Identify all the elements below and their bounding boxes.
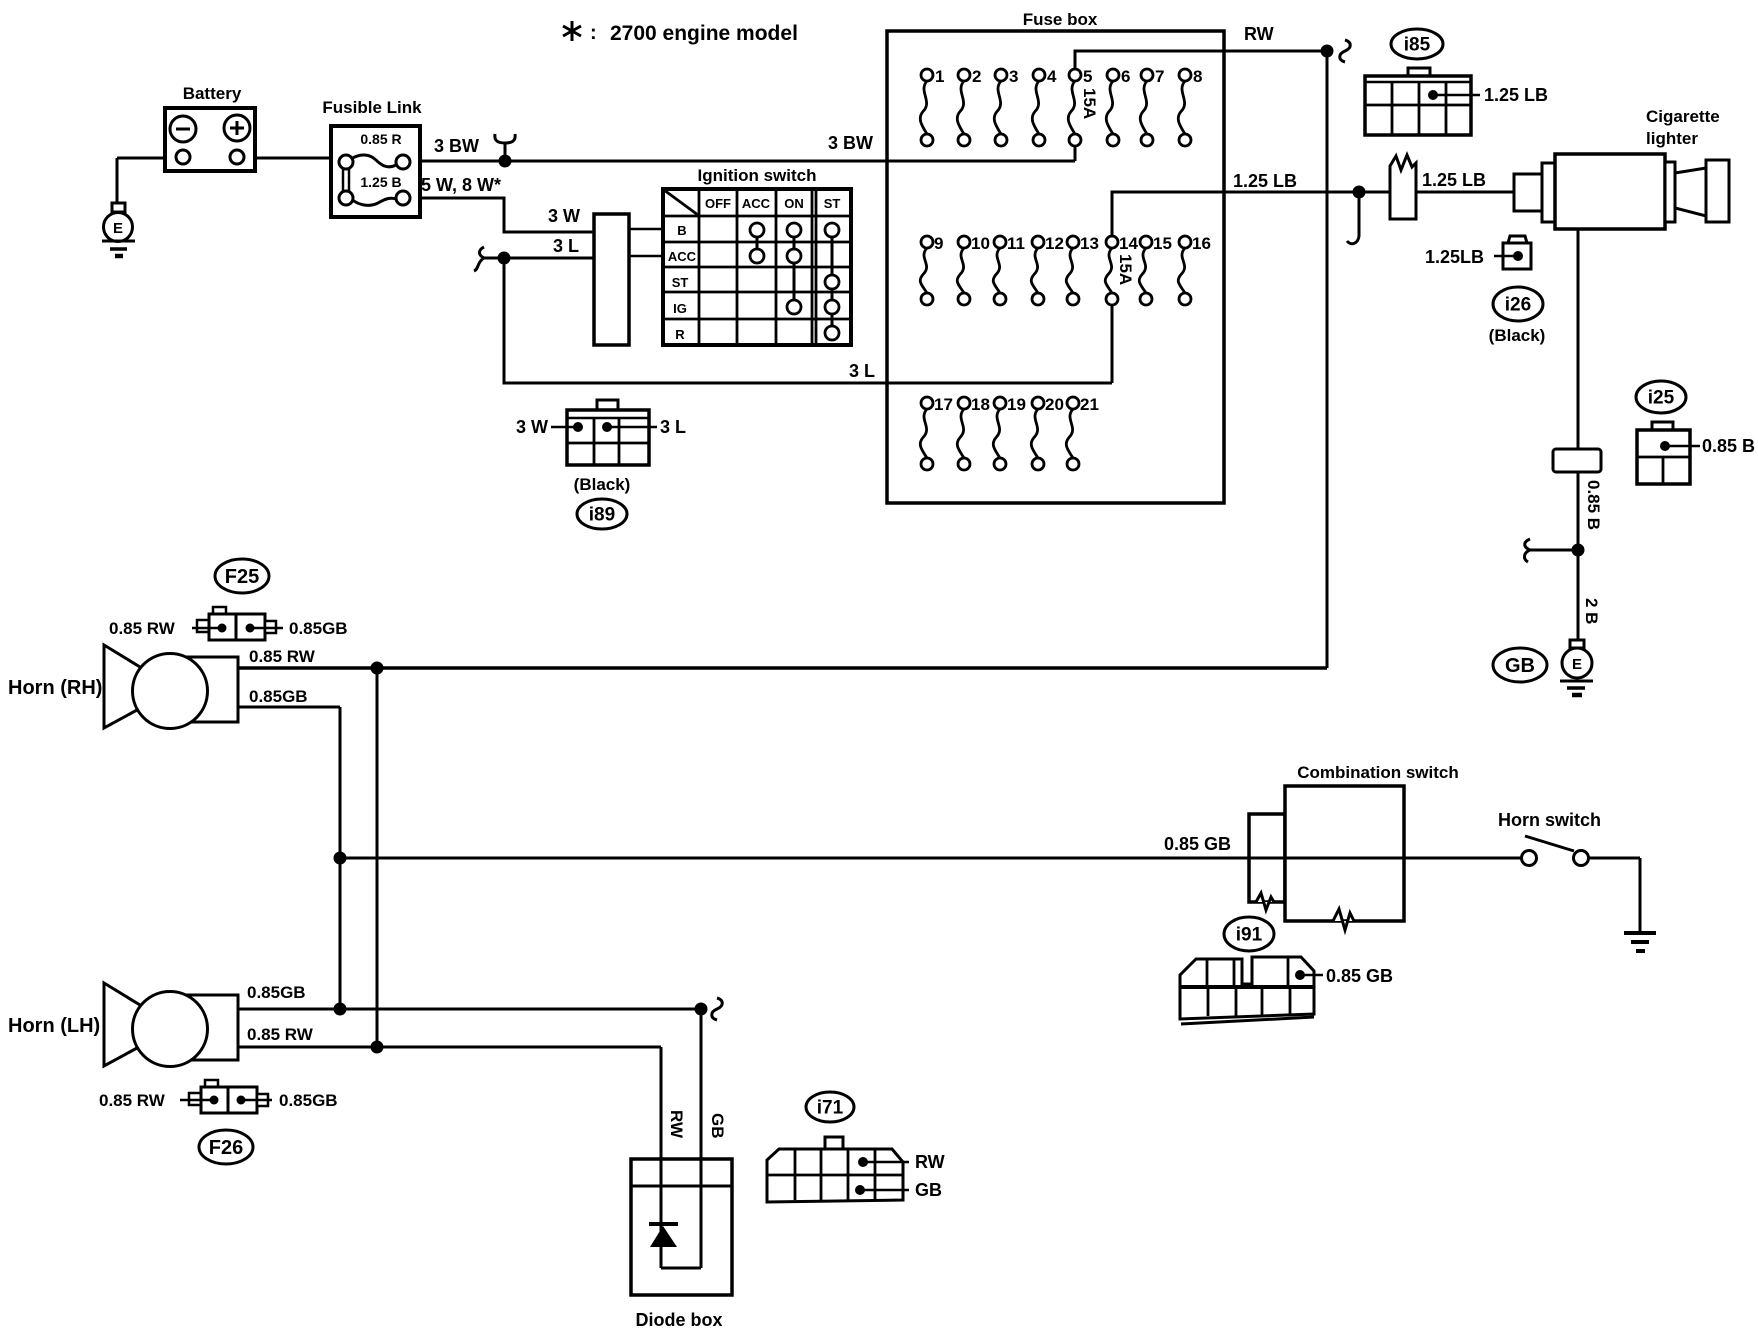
svg-text:Battery: Battery	[183, 84, 242, 103]
svg-text:1.25 B: 1.25 B	[360, 174, 401, 190]
svg-text:0.85GB: 0.85GB	[289, 619, 348, 638]
svg-text:Cigarette: Cigarette	[1646, 107, 1720, 126]
svg-text:0.85 RW: 0.85 RW	[99, 1091, 166, 1110]
svg-text:ST: ST	[824, 196, 841, 211]
svg-text:3 W: 3 W	[516, 417, 548, 437]
svg-text:(Black): (Black)	[574, 475, 631, 494]
svg-text:15A: 15A	[1080, 88, 1099, 119]
svg-text:9: 9	[934, 234, 943, 253]
svg-text:3 BW: 3 BW	[828, 133, 873, 153]
svg-text:0.85 GB: 0.85 GB	[1326, 966, 1393, 986]
svg-text:1.25LB: 1.25LB	[1425, 247, 1484, 267]
svg-text:(Black): (Black)	[1489, 326, 1546, 345]
svg-text:B: B	[677, 223, 686, 238]
svg-text:20: 20	[1045, 395, 1064, 414]
svg-text:Combination switch: Combination switch	[1297, 763, 1459, 782]
svg-text:3 L: 3 L	[553, 236, 579, 256]
svg-text::: :	[590, 22, 597, 44]
svg-text:Diode box: Diode box	[635, 1310, 722, 1328]
svg-text:GB: GB	[708, 1113, 727, 1139]
svg-text:R: R	[675, 327, 685, 342]
svg-text:Horn switch: Horn switch	[1498, 810, 1601, 830]
svg-text:IG: IG	[673, 301, 687, 316]
svg-text:GB: GB	[1505, 655, 1535, 677]
svg-text:11: 11	[1007, 234, 1025, 253]
svg-text:15A: 15A	[1116, 254, 1135, 285]
svg-text:i25: i25	[1648, 388, 1675, 409]
svg-text:18: 18	[971, 395, 990, 414]
svg-text:RW: RW	[915, 1152, 945, 1172]
svg-text:E: E	[113, 220, 123, 237]
svg-text:E: E	[1572, 656, 1582, 673]
svg-text:0.85 RW: 0.85 RW	[247, 1025, 314, 1044]
svg-text:8: 8	[1193, 67, 1202, 86]
svg-text:i89: i89	[589, 505, 615, 526]
svg-text:5: 5	[1083, 67, 1092, 86]
svg-text:12: 12	[1045, 234, 1064, 253]
svg-text:1.25 LB: 1.25 LB	[1484, 85, 1548, 105]
svg-text:0.85GB: 0.85GB	[279, 1091, 338, 1110]
svg-text:21: 21	[1080, 395, 1099, 414]
svg-text:0.85 B: 0.85 B	[1584, 480, 1603, 530]
svg-text:ON: ON	[784, 196, 804, 211]
svg-text:Horn (RH): Horn (RH)	[8, 677, 102, 699]
svg-text:3 L: 3 L	[849, 361, 875, 381]
svg-text:RW: RW	[1244, 24, 1274, 44]
svg-text:lighter: lighter	[1646, 129, 1698, 148]
svg-text:F26: F26	[209, 1137, 243, 1159]
svg-text:i91: i91	[1236, 925, 1263, 946]
svg-text:Fuse box: Fuse box	[1023, 10, 1098, 29]
svg-text:1: 1	[935, 67, 944, 86]
svg-text:13: 13	[1080, 234, 1099, 253]
svg-text:2 B: 2 B	[1582, 598, 1601, 624]
svg-text:F25: F25	[225, 566, 259, 588]
svg-text:i26: i26	[1505, 295, 1531, 316]
svg-text:ACC: ACC	[742, 196, 771, 211]
svg-text:14: 14	[1119, 234, 1138, 253]
svg-text:RW: RW	[667, 1110, 686, 1139]
svg-text:ST: ST	[672, 275, 689, 290]
svg-text:19: 19	[1007, 395, 1026, 414]
svg-text:3: 3	[1009, 67, 1018, 86]
svg-text:0.85 B: 0.85 B	[1702, 436, 1755, 456]
svg-text:2: 2	[972, 67, 981, 86]
svg-text:i85: i85	[1404, 35, 1431, 56]
svg-text:17: 17	[934, 395, 953, 414]
svg-text:Ignition switch: Ignition switch	[698, 166, 817, 185]
svg-text:3 L: 3 L	[660, 417, 686, 437]
svg-text:Fusible Link: Fusible Link	[322, 98, 422, 117]
svg-text:GB: GB	[915, 1180, 942, 1200]
svg-text:Horn (LH): Horn (LH)	[8, 1015, 100, 1037]
svg-text:0.85GB: 0.85GB	[247, 983, 306, 1002]
svg-text:15: 15	[1153, 234, 1172, 253]
svg-text:0.85 RW: 0.85 RW	[249, 647, 316, 666]
svg-text:3 W: 3 W	[548, 206, 580, 226]
svg-text:10: 10	[971, 234, 990, 253]
svg-text:6: 6	[1121, 67, 1130, 86]
svg-text:0.85 RW: 0.85 RW	[109, 619, 176, 638]
svg-text:OFF: OFF	[705, 196, 731, 211]
svg-text:1.25 LB: 1.25 LB	[1233, 171, 1297, 191]
svg-text:5 W, 8 W*: 5 W, 8 W*	[421, 175, 501, 195]
svg-text:7: 7	[1155, 67, 1164, 86]
svg-text:16: 16	[1192, 234, 1211, 253]
svg-text:0.85 GB: 0.85 GB	[1164, 834, 1231, 854]
svg-text:0.85 R: 0.85 R	[360, 131, 401, 147]
svg-text:0.85GB: 0.85GB	[249, 687, 308, 706]
svg-text:ACC: ACC	[668, 249, 697, 264]
svg-text:4: 4	[1047, 67, 1057, 86]
svg-text:2700 engine model: 2700 engine model	[610, 22, 798, 45]
svg-text:1.25 LB: 1.25 LB	[1422, 170, 1486, 190]
svg-text:3 BW: 3 BW	[434, 136, 479, 156]
svg-text:i71: i71	[817, 1098, 844, 1119]
